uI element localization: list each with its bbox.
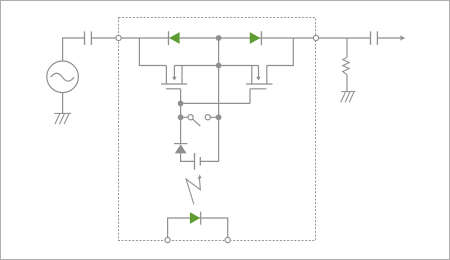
wire xyxy=(168,218,228,237)
wire xyxy=(181,153,195,161)
photodiode D3 xyxy=(174,144,187,154)
wire xyxy=(249,89,251,104)
wire xyxy=(346,75,348,92)
wire xyxy=(91,37,118,39)
wire xyxy=(180,103,182,143)
battery BT1 xyxy=(195,153,201,170)
wire xyxy=(139,38,166,66)
junction xyxy=(178,101,184,107)
wire xyxy=(62,93,64,114)
ground xyxy=(54,113,71,124)
terminal xyxy=(225,237,230,242)
transistor Q1 xyxy=(161,66,187,89)
wire xyxy=(267,38,294,66)
terminal xyxy=(313,35,318,40)
junction xyxy=(178,114,184,120)
wire xyxy=(218,38,220,66)
junction xyxy=(216,63,222,69)
ground xyxy=(341,92,356,103)
wire xyxy=(180,89,182,104)
wire xyxy=(316,37,371,39)
transistor Q2 xyxy=(246,66,273,89)
resistor R1 xyxy=(343,57,350,74)
wire xyxy=(200,117,218,161)
light arrow xyxy=(186,175,202,205)
wire xyxy=(119,37,316,39)
wire xyxy=(174,65,218,67)
junction xyxy=(216,114,222,120)
terminal xyxy=(116,35,121,40)
capacitor C1 xyxy=(85,31,92,45)
wire xyxy=(346,38,348,57)
diode D1 xyxy=(169,31,180,45)
AC source V1 xyxy=(47,61,79,93)
junction xyxy=(216,35,222,41)
wire output arrow xyxy=(377,35,405,40)
enclosure dashed box xyxy=(119,18,316,241)
terminal xyxy=(165,237,170,242)
wire xyxy=(63,38,85,61)
wire xyxy=(181,102,250,104)
LED D4 xyxy=(190,212,201,225)
capacitor C2 xyxy=(371,31,378,45)
wire xyxy=(219,65,259,67)
diode D2 xyxy=(250,31,262,45)
wire xyxy=(218,66,220,118)
switch S1 xyxy=(184,115,219,126)
